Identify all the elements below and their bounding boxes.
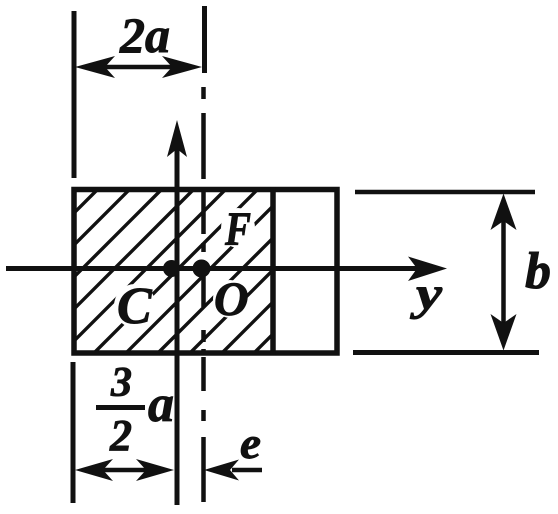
3/2 a dimension line (95, 468, 155, 473)
b dimension line (501, 216, 506, 332)
left extension line top (72, 11, 77, 178)
horizontal y axis line (6, 266, 420, 271)
e dimension arrow (232, 468, 262, 473)
y axis arrowhead (408, 257, 447, 282)
2a dimension line (100, 65, 180, 70)
dash-dot centerline, solid top part (extension for 2a) (202, 6, 207, 73)
svg-text:F: F (224, 203, 251, 256)
dash-dot centerline segments (201, 87, 206, 502)
3/2a right arrowhead (136, 459, 174, 481)
svg-text:a: a (148, 376, 174, 433)
inner boundary line of hatched part (270, 187, 276, 355)
b bottom extension line (353, 350, 539, 355)
3/2a left arrowhead (75, 459, 113, 481)
vertical axis line (175, 147, 180, 505)
white halo under label C (114, 284, 156, 328)
rectangle outline of section (74, 190, 337, 354)
svg-text:3: 3 (110, 360, 132, 406)
b bottom arrowhead (491, 314, 517, 351)
b top extension line (355, 190, 535, 195)
white halo under label O (213, 280, 247, 318)
b top arrowhead (491, 194, 517, 231)
point O dot (193, 260, 211, 278)
svg-text:C: C (117, 278, 153, 335)
point C dot (163, 260, 180, 277)
2a right arrowhead (162, 56, 202, 78)
svg-text:O: O (214, 273, 249, 326)
svg-text:2: 2 (109, 411, 132, 460)
svg-text:b: b (525, 243, 551, 300)
white halo under label F (221, 208, 255, 248)
hatching of cross-section area (0, 186, 421, 356)
2a left arrowhead (75, 56, 115, 78)
vertical axis arrowhead (167, 120, 187, 157)
svg-text:e: e (240, 419, 261, 468)
left extension line bottom (71, 362, 76, 503)
fraction bar (96, 405, 145, 410)
svg-text:2a: 2a (119, 7, 170, 63)
